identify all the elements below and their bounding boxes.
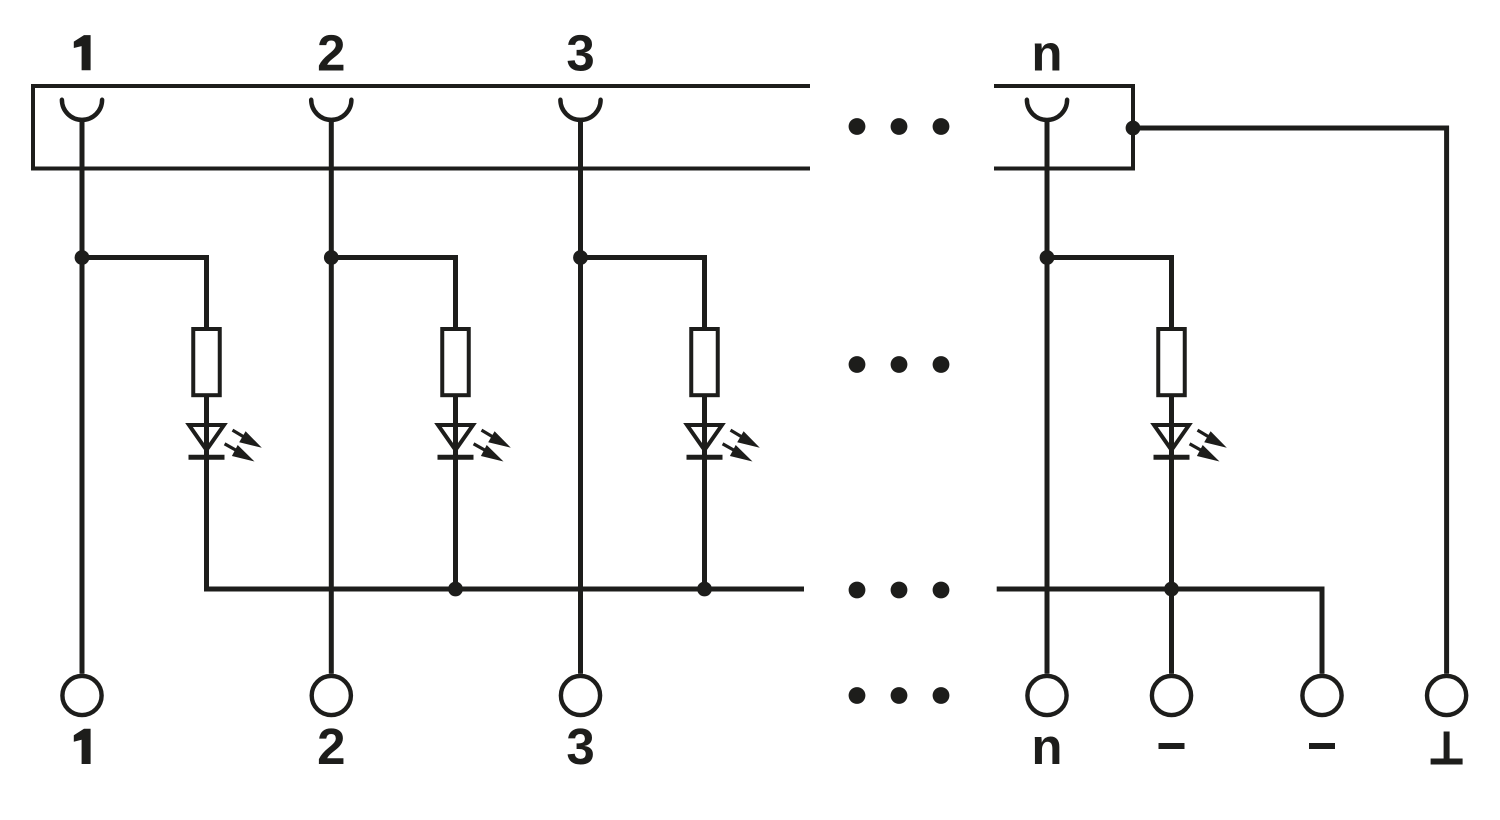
- LED Dn triangle: [1154, 425, 1189, 450]
- junction channel 3 LED at bottom bus: [697, 582, 712, 597]
- wire channel n resistor to minus terminal (through LED): [1169, 395, 1174, 674]
- LED Dn light arrow upper: [1198, 430, 1227, 448]
- connector housing right segment (channel n): [994, 86, 1133, 169]
- LED D2 cathode bar: [438, 455, 474, 460]
- terminal minus 2: [1302, 676, 1341, 715]
- junction shield at housing right edge: [1126, 121, 1141, 136]
- LED D2 triangle: [438, 425, 473, 450]
- LED D3 light arrow upper: [731, 430, 760, 448]
- junction channel 2 LED at bottom bus: [448, 582, 463, 597]
- terminal minus 1: [1152, 676, 1191, 715]
- LED D1 light arrow upper: [233, 430, 262, 448]
- LED Dn light arrow lower: [1190, 444, 1220, 462]
- connector housing (main bus rectangle, open right): [33, 86, 810, 169]
- resistor Rn: [1158, 329, 1185, 395]
- label minus 2: [1309, 743, 1335, 749]
- wire channel 3 branch to resistor: [581, 258, 705, 332]
- LED D1 light arrow lower: [225, 444, 255, 462]
- junction channel n branch: [1040, 250, 1055, 265]
- wire channel 1 branch to resistor: [82, 258, 207, 332]
- wire channel 3 resistor to bottom bus (through LED): [702, 395, 707, 589]
- ellipsis dots middle row: [849, 356, 950, 373]
- svg-text:n: n: [1031, 718, 1062, 775]
- LED D1 cathode bar: [189, 455, 225, 460]
- ellipsis dots terminal row: [849, 687, 950, 704]
- LED Dn cathode bar: [1154, 455, 1190, 460]
- label terminal 1: [74, 729, 91, 764]
- wire channel 3 main vertical: [578, 120, 583, 674]
- junction channel 1 branch: [75, 250, 90, 265]
- wire channel 2 branch to resistor: [331, 258, 455, 332]
- label ground symbol: [1431, 732, 1463, 762]
- socket contact 3: [560, 100, 600, 120]
- wire channel 1 main vertical: [80, 120, 85, 674]
- wire bottom LED bus right segment to minus terminal: [997, 589, 1322, 674]
- wire channel n branch to resistor: [1047, 258, 1172, 332]
- LED D2 light arrow lower: [474, 444, 504, 462]
- wire bottom LED bus left segment: [204, 587, 804, 592]
- label pin 1 (top): [74, 35, 91, 70]
- terminal 2: [312, 676, 351, 715]
- socket contact 2: [311, 100, 351, 120]
- terminal 3: [561, 676, 600, 715]
- wire channel 1 resistor to bottom bus (through LED): [204, 395, 209, 591]
- wire channel n main vertical: [1045, 120, 1050, 674]
- LED D3 light arrow lower: [723, 444, 753, 462]
- resistor R1: [193, 329, 220, 395]
- junction channel 3 branch: [573, 250, 588, 265]
- resistor R3: [691, 329, 718, 395]
- junction channel 2 branch: [324, 250, 339, 265]
- wire channel 2 main vertical: [329, 120, 334, 674]
- label minus 1: [1159, 743, 1185, 749]
- LED D3 cathode bar: [687, 455, 723, 460]
- svg-text:3: 3: [566, 25, 594, 82]
- ellipsis dots bus row: [849, 582, 950, 599]
- svg-text:n: n: [1031, 25, 1062, 82]
- socket contact 1: [62, 100, 102, 120]
- LED D1 triangle: [189, 425, 224, 450]
- LED D2 light arrow upper: [482, 430, 511, 448]
- terminal 1: [62, 676, 101, 715]
- wire shield from housing to ground terminal: [1133, 128, 1447, 674]
- svg-text:3: 3: [566, 718, 594, 775]
- svg-text:2: 2: [317, 718, 345, 775]
- terminal n: [1027, 676, 1066, 715]
- svg-text:2: 2: [317, 25, 345, 82]
- LED D3 triangle: [687, 425, 722, 450]
- junction channel n LED at bottom bus: [1164, 582, 1179, 597]
- wire channel 2 resistor to bottom bus (through LED): [453, 395, 458, 589]
- socket contact n: [1027, 100, 1067, 120]
- terminal ground: [1427, 676, 1466, 715]
- resistor R2: [442, 329, 469, 395]
- ellipsis dots top row: [849, 118, 950, 135]
